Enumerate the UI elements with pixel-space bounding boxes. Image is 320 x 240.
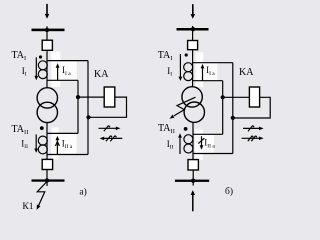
svg-text:К1: К1 xyxy=(22,202,33,212)
svg-text:б): б) xyxy=(225,186,233,197)
svg-text:KA: KA xyxy=(94,69,109,80)
svg-text:а): а) xyxy=(79,186,86,197)
svg-text:TAI: TAI xyxy=(158,50,173,62)
svg-text:TAI: TAI xyxy=(12,50,27,62)
svg-text:KA: KA xyxy=(239,67,254,78)
